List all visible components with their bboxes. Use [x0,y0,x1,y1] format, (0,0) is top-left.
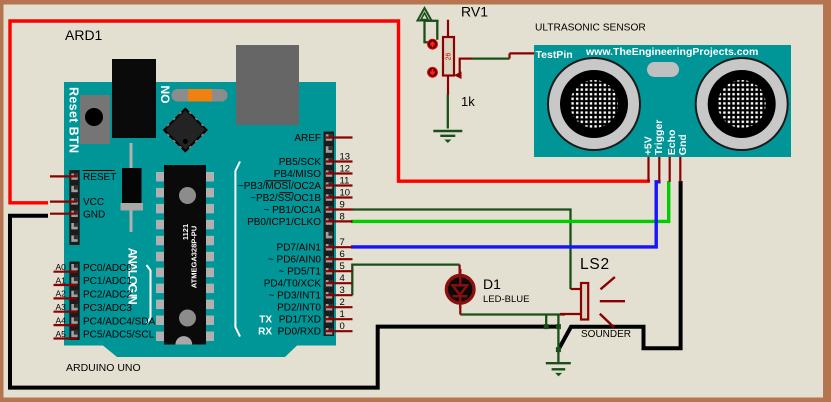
svg-text:~ PD3/INT1: ~ PD3/INT1 [268,291,321,302]
svg-text:26: 26 [446,53,453,61]
svg-text:3: 3 [340,285,345,296]
svg-text:8: 8 [340,212,345,223]
svg-text:~PB3/MOSI/OC2A: ~PB3/MOSI/OC2A [238,181,321,192]
svg-text:PB4/MISO: PB4/MISO [274,169,321,180]
svg-text:PC4/ADC4/SDA: PC4/ADC4/SDA [83,316,156,327]
svg-text:PC0/ADC0: PC0/ADC0 [83,263,132,274]
svg-text:2: 2 [340,297,345,308]
svg-text:4: 4 [340,273,345,284]
svg-text:Gnd: Gnd [677,134,689,155]
svg-text:A0: A0 [56,262,67,272]
svg-text:PD1/TXD: PD1/TXD [279,315,321,326]
svg-text:LED-BLUE: LED-BLUE [483,294,529,305]
svg-text:10: 10 [340,188,351,199]
svg-text:SOUNDER: SOUNDER [581,329,631,340]
svg-text:~ PD5/T1: ~ PD5/T1 [278,267,321,278]
svg-text:9: 9 [340,200,345,211]
svg-text:TX: TX [259,315,272,326]
svg-text:PC3/ADC3: PC3/ADC3 [83,303,132,314]
svg-text:ARDUINO UNO: ARDUINO UNO [66,362,141,374]
svg-text:ATMEGA328P-PU: ATMEGA328P-PU [190,226,199,288]
svg-text:A5: A5 [56,329,67,339]
svg-text:RV1: RV1 [461,4,488,20]
svg-text:PB5/SCK: PB5/SCK [279,157,322,168]
svg-text:PD4/T0/XCK: PD4/T0/XCK [264,279,322,290]
svg-text:Trigger: Trigger [653,120,665,156]
svg-text:AREF: AREF [294,133,321,144]
svg-text:~ PD6/AIN0: ~ PD6/AIN0 [268,255,322,266]
svg-text:LS2: LS2 [580,256,610,273]
svg-text:TestPin: TestPin [536,49,573,61]
svg-text:PD0/RXD: PD0/RXD [278,327,321,338]
svg-text:0: 0 [340,321,345,332]
svg-text:Reset BTN: Reset BTN [66,87,80,153]
svg-text:PC2/ADC2: PC2/ADC2 [83,290,132,301]
svg-text:PC1/ADC1: PC1/ADC1 [83,276,132,287]
svg-text:VCC: VCC [83,197,104,208]
svg-text:5: 5 [340,261,345,272]
svg-text:~ PB1/OC1A: ~ PB1/OC1A [263,205,321,216]
svg-text:PC5/ADC5/SCL: PC5/ADC5/SCL [83,330,155,341]
svg-text:A3: A3 [56,302,67,312]
svg-text:A4: A4 [56,315,67,325]
svg-text:6: 6 [340,249,345,260]
svg-text:PB0/ICP1/CLKO: PB0/ICP1/CLKO [247,217,321,228]
svg-text:A1: A1 [56,275,67,285]
svg-text:~PB2/SS/OC1B: ~PB2/SS/OC1B [250,193,321,204]
svg-text:PD7/AIN1: PD7/AIN1 [277,243,322,254]
svg-text:RX: RX [258,327,272,338]
svg-text:ON: ON [158,86,172,104]
svg-text:13: 13 [340,152,351,163]
svg-text:1: 1 [340,309,345,320]
svg-text:ARD1: ARD1 [65,27,103,43]
svg-text:GND: GND [83,210,105,221]
svg-text:A2: A2 [56,289,67,299]
svg-text:ULTRASONIC SENSOR: ULTRASONIC SENSOR [535,23,646,34]
svg-text:www.TheEngineeringProjects.com: www.TheEngineeringProjects.com [585,46,758,58]
svg-text:RESET: RESET [83,172,116,183]
svg-text:PD2/INT0: PD2/INT0 [277,303,321,314]
svg-text:1k: 1k [461,94,475,109]
svg-text:7: 7 [340,237,345,248]
svg-text:12: 12 [340,164,351,175]
svg-text:D1: D1 [483,276,501,292]
svg-text:11: 11 [340,176,350,187]
